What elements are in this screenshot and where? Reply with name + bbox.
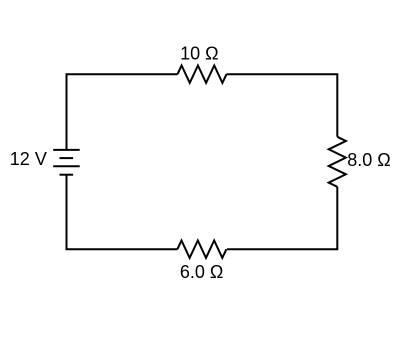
battery 12 V [53, 150, 79, 175]
wire: bottom-left (6.0-ohm resistor across and up to battery - terminal) [67, 175, 178, 250]
value label: 8.0 ohm [347, 150, 390, 170]
svg-text:6.0 Ω: 6.0 Ω [180, 262, 223, 282]
value label: 12 V [10, 149, 47, 169]
value label: 6.0 ohm [180, 262, 223, 282]
wire: top-right (10-ohm resistor across and down to 8.0-ohm resistor) [227, 74, 338, 137]
wire: right-bottom (8.0-ohm resistor down and across to 6.0-ohm resistor) [227, 187, 337, 249]
resistor 6.0 ohm (bottom) [177, 241, 226, 258]
wire: left-top (battery + terminal up and across to 10-ohm resistor) [67, 74, 178, 150]
resistor 10 ohm (top) [178, 66, 227, 83]
resistor 8.0 ohm (right) [329, 137, 346, 187]
svg-text:8.0 Ω: 8.0 Ω [347, 150, 390, 170]
svg-text:10 Ω: 10 Ω [180, 44, 218, 64]
value label: 10 ohm [180, 44, 218, 64]
svg-text:12 V: 12 V [10, 149, 47, 169]
